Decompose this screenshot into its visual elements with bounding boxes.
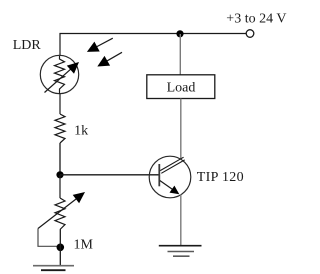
transistor Q1 circle: [149, 156, 191, 198]
LDR R1 circle: [40, 55, 78, 93]
light arrow 2: [106, 52, 123, 62]
resistor R1 1k: [55, 114, 65, 143]
Q1 emitter with arrow: [160, 181, 173, 190]
wire node B to ground: [59, 230, 61, 266]
wire node A to potentiometer: [59, 175, 61, 198]
terminal +V: [246, 30, 254, 38]
wire top rail: [60, 33, 247, 35]
node junction top: [176, 30, 183, 37]
wire rail to LDR: [59, 33, 61, 56]
svg-text:Load: Load: [167, 81, 196, 96]
svg-text:+3 to 24 V: +3 to 24 V: [226, 11, 286, 26]
LDR variable arrow: [45, 68, 72, 92]
node A junction: [56, 171, 63, 178]
node B junction bottom: [57, 244, 65, 252]
svg-text:LDR: LDR: [13, 38, 42, 53]
Q1 base bar: [158, 164, 160, 186]
load box: [147, 75, 215, 99]
RV1 wiper arrow: [38, 198, 78, 229]
wire R1 to node A: [59, 143, 61, 175]
RV1 wiper return wire: [38, 229, 60, 247]
wire LDR to R1: [59, 94, 61, 114]
ground right: [159, 245, 202, 247]
svg-text:1M: 1M: [74, 238, 94, 253]
ground left: [33, 265, 74, 267]
wire emitter to ground: [180, 195, 182, 246]
wire load to collector: [180, 99, 182, 160]
wire base (node A to Q1 base): [60, 174, 159, 176]
wire junction to load: [179, 34, 181, 75]
light arrow 1: [95, 38, 113, 47]
Q1 collector double line: [160, 157, 183, 170]
LDR zigzag element: [55, 56, 65, 94]
svg-text:TIP 120: TIP 120: [197, 170, 244, 185]
potentiometer RV1 1M zigzag: [55, 198, 65, 230]
svg-text:1k: 1k: [74, 124, 88, 139]
